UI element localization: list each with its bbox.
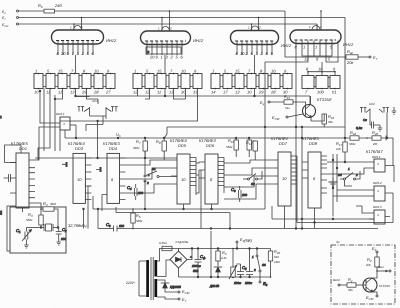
- svg-text:1: 1: [161, 55, 163, 60]
- svg-text:10: 10: [77, 177, 82, 182]
- svg-text:ХС2: ХС2: [368, 102, 375, 106]
- diode VD5 D814V: [209, 267, 222, 288]
- wire V1 anode drops: [73, 17, 82, 30]
- svg-text:1: 1: [212, 69, 214, 74]
- wire bus y212.5: [116, 207, 231, 229]
- svg-text:56к: 56к: [328, 120, 333, 124]
- node ECM terminal: [178, 289, 190, 295]
- resistor Rn 2.2k: [216, 249, 227, 267]
- resistor R7 560k: [133, 138, 147, 158]
- switch S2: [243, 171, 262, 186]
- svg-text:220V~: 220V~: [125, 281, 136, 285]
- svg-text:100: 100: [242, 193, 247, 197]
- resistor R8: [156, 138, 166, 160]
- carry wires DD8-DD9: [327, 161, 394, 213]
- op gate DD9.1 K176LA7: [366, 149, 390, 172]
- svg-text:DD9.2: DD9.2: [373, 181, 382, 185]
- svg-text:ИН12: ИН12: [193, 38, 204, 43]
- resistor R22 910: [268, 249, 280, 278]
- svg-text:DD9.3: DD9.3: [373, 205, 382, 209]
- svg-text:0,1м: 0,1м: [356, 126, 362, 130]
- node E2(5V) terminal: [236, 237, 253, 249]
- svg-text:DD6: DD6: [206, 143, 215, 148]
- resistor R10 560k: [226, 138, 238, 157]
- svg-text:10: 10: [181, 177, 186, 182]
- svg-text:2: 2: [319, 25, 322, 29]
- bridge VD1-VD4: [157, 249, 192, 278]
- svg-text:КД105Б: КД105Б: [170, 285, 181, 289]
- wire psu bottom rail: [179, 276, 271, 278]
- capacitor C6 100: [231, 186, 247, 202]
- op IC DD8 K176IE3: [302, 136, 338, 217]
- nixie tube V1 IN12: [52, 26, 104, 45]
- wire psu top rail: [179, 248, 271, 250]
- svg-text:20к: 20к: [365, 263, 371, 267]
- svg-text:S2: S2: [251, 182, 255, 186]
- svg-text:10: 10: [181, 69, 186, 74]
- svg-text:20: 20: [60, 51, 66, 56]
- capacitor C5: [234, 264, 247, 285]
- node ECM2 terminal: [272, 114, 303, 121]
- resistor R6 240: [38, 3, 62, 13]
- svg-text:11: 11: [58, 90, 62, 95]
- svg-text:560к: 560к: [136, 219, 143, 223]
- transistor VT2 KT315: [363, 278, 391, 295]
- node Up label: [116, 132, 121, 138]
- wire V4 anode drops: [317, 10, 322, 30]
- amp dashed box: [331, 245, 395, 304]
- svg-text:12: 12: [46, 90, 51, 95]
- driver array row 1: [34, 69, 115, 95]
- svg-text:15: 15: [58, 69, 63, 74]
- wire h-bus y96: [75, 89, 310, 105]
- node E7 terminal: [157, 297, 187, 303]
- svg-text:Зч: Зч: [336, 240, 340, 244]
- wire bus y209: [93, 62, 265, 211]
- fuse FU1 0.25A: [157, 241, 172, 261]
- capacitor C1 trimmer: [16, 228, 41, 243]
- nixie tube V3 IN12: [231, 26, 279, 45]
- svg-text:КТ315И: КТ315И: [317, 97, 331, 102]
- svg-text:DD9.1: DD9.1: [372, 155, 381, 159]
- ground S4: [329, 178, 338, 186]
- svg-text:10: 10: [282, 176, 287, 181]
- svg-text:15: 15: [235, 69, 240, 74]
- svg-text:240: 240: [54, 3, 62, 8]
- svg-text:0,25А: 0,25А: [159, 241, 167, 245]
- svg-text:2М: 2М: [372, 142, 378, 146]
- svg-text:10: 10: [247, 90, 252, 95]
- svg-text:20: 20: [149, 55, 155, 60]
- svg-text:17: 17: [223, 90, 228, 95]
- svg-text:11: 11: [157, 90, 161, 95]
- resistor Ran 20k: [346, 49, 378, 65]
- svg-text:01: 01: [332, 90, 336, 95]
- node E2 amp terminal: [372, 246, 378, 257]
- scan edge artifact: [0, 211, 2, 216]
- op IC DD4 K176IE3: [96, 141, 126, 203]
- svg-text:2000м: 2000м: [191, 264, 201, 268]
- driver array row 2: [133, 69, 202, 95]
- op IC DD1 K176IE5: [4, 141, 35, 251]
- resistor R15 51k: [260, 94, 306, 110]
- svg-text:13: 13: [235, 90, 240, 95]
- resistor R13 10k: [246, 140, 257, 160]
- wire IC bottoms to bus: [23, 127, 315, 229]
- svg-text:10: 10: [271, 69, 276, 74]
- svg-text:13: 13: [70, 90, 75, 95]
- nixie tube V4 IN12: [290, 25, 341, 44]
- op gate DD9.2: [369, 181, 393, 223]
- capacitor C2 100: [56, 227, 67, 242]
- svg-text:910: 910: [274, 255, 279, 259]
- label V1 pin numbers: [57, 51, 95, 56]
- svg-text:32,768кГц: 32,768кГц: [68, 223, 87, 228]
- resistor R11 10k: [247, 138, 258, 157]
- wire rail2: [19, 18, 346, 143]
- resistor R21 trimmer: [229, 248, 237, 279]
- node Vyh output: [376, 265, 391, 272]
- svg-text:100: 100: [61, 237, 66, 241]
- svg-text:DD4: DD4: [109, 146, 118, 151]
- svg-text:100: 100: [119, 224, 124, 228]
- wire y219 bus: [272, 218, 374, 220]
- wire XS2 right leg: [386, 113, 393, 166]
- capacitor C3 0.1: [356, 113, 380, 131]
- transformer T1: [125, 257, 156, 300]
- svg-text:Сп: Сп: [363, 118, 367, 122]
- capacitor Cf 2000u: [190, 249, 206, 278]
- wire bottom bus y228.5 with series capacitor: [97, 208, 378, 231]
- op gate DD2.1: [56, 112, 77, 139]
- node E2 rail label: [2, 10, 19, 15]
- wire row1 verticals to DD1/DD3: [38, 89, 98, 161]
- wire DD2.1 inputs: [35, 90, 103, 160]
- switch S4: [338, 167, 360, 186]
- svg-text:2: 2: [146, 181, 149, 185]
- svg-text:DD2.1: DD2.1: [56, 112, 65, 116]
- svg-text:DD1: DD1: [19, 146, 27, 151]
- resistor R2 20k: [365, 257, 379, 278]
- ground C2: [56, 242, 61, 245]
- wire y222.5 bus: [297, 222, 393, 224]
- driver array row 4: [302, 62, 340, 95]
- svg-text:560к: 560к: [26, 218, 33, 222]
- wire h-bus y138: [65, 137, 346, 139]
- capacitor C4 100: [127, 184, 143, 200]
- wire V3 pins: [237, 42, 272, 74]
- svg-text:20к: 20к: [346, 60, 354, 65]
- svg-text:К176ЛА7: К176ЛА7: [366, 149, 383, 154]
- crystal ZQ1: [40, 224, 59, 231]
- capacitor C6a: [244, 248, 253, 285]
- svg-text:31: 31: [193, 90, 197, 95]
- resistor R20 2M: [366, 130, 386, 146]
- carry wires DD5-DD6: [196, 162, 199, 193]
- transistor VT1 KT315: [303, 96, 332, 121]
- op IC DD5 K176IE4: [170, 138, 201, 229]
- svg-text:56к: 56к: [348, 288, 353, 292]
- resistor R3 560k: [26, 212, 43, 228]
- label V3 pin numbers: [236, 51, 274, 56]
- wire V3 anode drops: [251, 17, 260, 31]
- svg-text:28: 28: [93, 90, 99, 95]
- node E7 rail label: [2, 16, 19, 21]
- svg-text:1Вт: 1Вт: [274, 260, 281, 264]
- connector XS2: [360, 102, 389, 113]
- svg-text:E2(5В): E2(5В): [240, 237, 253, 243]
- resistor R17 10k: [336, 141, 347, 162]
- node ECM rail label: [2, 23, 19, 28]
- wire rail1: [19, 11, 347, 57]
- wire V1 pins: [58, 41, 93, 74]
- resistor Ru 56k: [347, 277, 366, 292]
- ground C3: [378, 125, 383, 131]
- wire V4 pins and mesh: [265, 41, 338, 229]
- oscillator box: [10, 207, 66, 253]
- wire y158 bus: [35, 120, 177, 159]
- svg-text:S3: S3: [262, 263, 266, 267]
- svg-text:220м: 220м: [244, 281, 252, 285]
- carry wires DD6-DD7: [224, 160, 272, 199]
- svg-text:Д814В: Д814В: [209, 284, 219, 288]
- svg-text:ИН12: ИН12: [343, 42, 354, 47]
- op IC DD3 K176IE4: [62, 141, 91, 203]
- svg-text:Вых: Вых: [378, 265, 384, 269]
- svg-text:DD3: DD3: [75, 146, 84, 151]
- svg-text:1: 1: [35, 69, 37, 74]
- svg-text:12: 12: [304, 57, 309, 62]
- svg-text:2: 2: [253, 268, 256, 272]
- svg-text:15: 15: [157, 69, 162, 74]
- driver array row 3: [211, 69, 292, 95]
- resistor R16 56k: [311, 114, 335, 127]
- scan edge artifact: [0, 116, 2, 119]
- node Vhod input: [333, 278, 347, 286]
- svg-text:100м: 100м: [234, 281, 241, 285]
- node ECM amp terminal: [366, 295, 378, 301]
- svg-text:2,2к: 2,2к: [220, 256, 227, 260]
- switch S6: [252, 248, 268, 287]
- wire psu feed: [210, 231, 212, 277]
- op gate DD9.3: [369, 205, 390, 224]
- connector XS1: [78, 99, 118, 116]
- svg-text:560к: 560к: [226, 145, 233, 149]
- svg-text:10: 10: [318, 67, 323, 72]
- carry wires DD4-DD5: [126, 160, 172, 193]
- svg-text:Вход: Вход: [333, 278, 340, 282]
- wire rail3: [19, 24, 318, 30]
- switch S1: [144, 151, 177, 210]
- wire V2 pins and mesh: [146, 42, 182, 74]
- ground XS2: [392, 107, 397, 114]
- wire row2 drop: [60, 89, 198, 152]
- svg-text:29: 29: [258, 90, 264, 95]
- resistor R18 560k: [345, 130, 367, 146]
- svg-text:DD8: DD8: [309, 141, 318, 146]
- svg-text:560к: 560к: [349, 142, 356, 146]
- svg-text:ХС1: ХС1: [91, 99, 98, 103]
- svg-text:14: 14: [211, 90, 216, 95]
- wire left verticals row2: [138, 89, 186, 100]
- resistor R5 560k: [131, 208, 143, 229]
- svg-text:DD7: DD7: [279, 141, 288, 146]
- svg-text:100: 100: [317, 90, 324, 95]
- svg-text:30М: 30М: [50, 202, 56, 206]
- svg-text:1: 1: [303, 45, 305, 50]
- svg-text:10: 10: [34, 90, 39, 95]
- nixie tube V2 IN12: [141, 27, 191, 45]
- svg-text:10к: 10к: [336, 147, 341, 151]
- svg-text:ИН12: ИН12: [281, 43, 292, 48]
- svg-text:КТ315И: КТ315И: [379, 284, 391, 288]
- svg-text:50В: 50В: [193, 269, 198, 273]
- svg-text:27: 27: [105, 90, 111, 95]
- wire V2 anode drops: [161, 10, 170, 31]
- carry wires DD3-DD4: [88, 186, 91, 229]
- svg-text:+: +: [190, 255, 192, 259]
- ground C1: [24, 243, 29, 249]
- svg-text:51к: 51к: [285, 106, 290, 110]
- wire XS1 leads: [76, 97, 107, 125]
- svg-text:10: 10: [240, 51, 245, 56]
- svg-text:1: 1: [134, 69, 136, 74]
- op IC DD7 K176IE4: [271, 136, 297, 223]
- label V2 pin numbers: [149, 55, 184, 60]
- svg-text:28: 28: [270, 90, 276, 95]
- svg-text:4 КД105Б: 4 КД105Б: [175, 240, 188, 244]
- diode VD6 KD105B: [157, 280, 181, 292]
- op IC DD6 K176IE3: [199, 138, 224, 204]
- wire h-bus y127: [164, 126, 345, 138]
- svg-text:1: 1: [315, 45, 317, 50]
- resistor R4 30M: [29, 201, 58, 228]
- label V4 pin numbers: [295, 45, 334, 62]
- svg-text:ИН12: ИН12: [106, 38, 117, 43]
- svg-text:DD5: DD5: [178, 143, 187, 148]
- svg-text:10: 10: [94, 69, 99, 74]
- svg-text:560к: 560к: [133, 146, 140, 150]
